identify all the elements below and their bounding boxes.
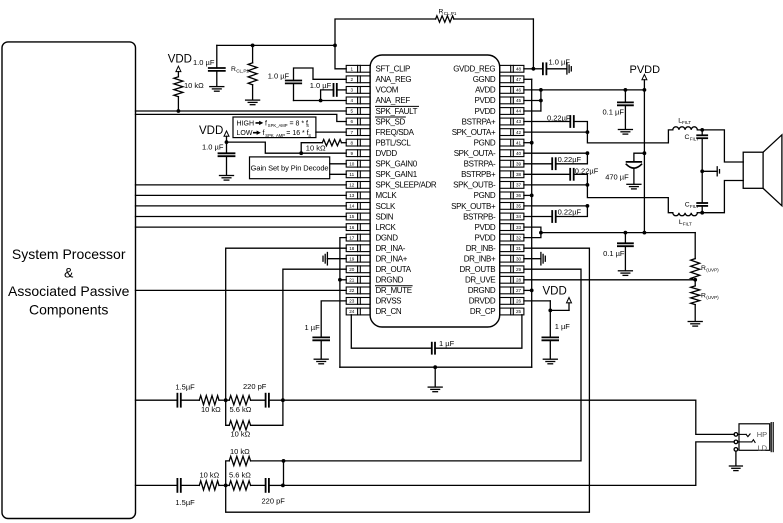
svg-text:6: 6 bbox=[351, 119, 354, 124]
svg-text:470 µF: 470 µF bbox=[605, 172, 629, 181]
pin 42 SPK_OUTA+ terminal bbox=[500, 129, 524, 136]
svg-text:DRVSS: DRVSS bbox=[376, 297, 402, 306]
pin 11 SPK_GAIN1 terminal bbox=[346, 171, 370, 178]
svg-text:4: 4 bbox=[351, 98, 354, 103]
svg-text:12: 12 bbox=[349, 183, 355, 188]
svg-text:45: 45 bbox=[516, 98, 522, 103]
wire top feedback loop bbox=[335, 19, 533, 69]
wire SPK_OUTB+ bbox=[524, 205, 588, 207]
capacitor 1.5uF A bbox=[136, 382, 200, 406]
svg-text:S: S bbox=[308, 133, 311, 138]
pin 10 SPK_GAIN0 terminal bbox=[346, 160, 370, 167]
System Processor block bbox=[2, 42, 136, 519]
ground filter midpoint bbox=[700, 167, 719, 176]
svg-text:0.22µF: 0.22µF bbox=[558, 208, 582, 217]
svg-text:DRVDD: DRVDD bbox=[469, 297, 496, 306]
pin 43 BSTRPA+ terminal bbox=[500, 118, 524, 125]
svg-text:10 kΩ: 10 kΩ bbox=[230, 447, 250, 456]
VDD supply symbol (DRVDD) bbox=[524, 286, 572, 313]
pin 22 DR_MUTE terminal bbox=[346, 287, 370, 294]
note box frequency select bbox=[233, 117, 316, 138]
wire ground bus bottom bbox=[340, 365, 532, 369]
wire GGND/PGND/DRGND bus bbox=[524, 79, 534, 367]
svg-text:FREQ/SDA: FREQ/SDA bbox=[376, 128, 415, 137]
wire DR_INA- to input network bbox=[226, 248, 347, 400]
resistor R_UVP lower bbox=[688, 280, 719, 326]
wire SCLK line bbox=[136, 205, 347, 207]
svg-text:S: S bbox=[306, 123, 309, 128]
pin 23 DRVSS terminal bbox=[346, 298, 370, 305]
resistor 10 kOhm B feedback bbox=[226, 447, 286, 485]
svg-text:36: 36 bbox=[516, 193, 522, 198]
svg-text:MCLK: MCLK bbox=[376, 191, 398, 200]
label pin SPK_SD bbox=[376, 117, 406, 126]
svg-text:0.22µF: 0.22µF bbox=[575, 166, 599, 175]
note box gain set bbox=[250, 157, 330, 179]
svg-text:1 µF: 1 µF bbox=[305, 323, 321, 332]
capacitor 1.0uF DVDD decoupling bbox=[202, 142, 235, 180]
resistor 10 kOhm A feedback bbox=[226, 400, 283, 438]
svg-text:10 kΩ: 10 kΩ bbox=[231, 429, 251, 438]
svg-text:DR_OUTA: DR_OUTA bbox=[376, 265, 412, 274]
wire DR_MUTE line bbox=[136, 289, 347, 291]
pin 45 PVDD terminal bbox=[500, 97, 524, 104]
svg-text:DR_INA+: DR_INA+ bbox=[376, 255, 408, 264]
svg-text:DR_INB-: DR_INB- bbox=[466, 244, 496, 253]
svg-text:= 16 * f: = 16 * f bbox=[286, 130, 308, 137]
svg-text:24: 24 bbox=[349, 309, 355, 314]
PVDD supply symbol bbox=[630, 64, 661, 80]
svg-text:1.0 µF: 1.0 µF bbox=[268, 71, 290, 80]
capacitor 1.0uF ANA_REG bbox=[268, 68, 347, 101]
svg-text:10 kΩ: 10 kΩ bbox=[201, 405, 221, 414]
svg-text:17: 17 bbox=[349, 235, 355, 240]
svg-text:SPK_OUTB+: SPK_OUTB+ bbox=[451, 202, 496, 211]
wire row1 to HP jack bbox=[283, 400, 734, 434]
capacitor 1uF charge pump DR_CN/DR_CP bbox=[351, 315, 522, 354]
svg-text:48: 48 bbox=[516, 67, 522, 72]
pin 19 DR_INA+ terminal bbox=[346, 255, 370, 262]
svg-text:PVDD: PVDD bbox=[474, 223, 495, 232]
inductor L_FILT lower bbox=[673, 213, 698, 227]
pin 26 DRVDD terminal bbox=[500, 298, 524, 305]
svg-text:VDD: VDD bbox=[199, 125, 223, 137]
svg-text:11: 11 bbox=[349, 172, 354, 177]
pin 20 DR_OUTA terminal bbox=[346, 266, 370, 273]
pin 27 DRGND terminal bbox=[500, 287, 524, 294]
resistor 10 kOhm B series bbox=[199, 471, 227, 491]
capacitor 1.5uF B bbox=[136, 479, 200, 507]
pin 46 AVDD terminal bbox=[500, 87, 524, 94]
pin 40 SPK_OUTA- terminal bbox=[500, 150, 524, 157]
svg-text:5: 5 bbox=[351, 109, 354, 114]
svg-text:System Processor: System Processor bbox=[12, 246, 126, 262]
ground main bbox=[428, 367, 442, 392]
pin 29 DR_OUTB terminal bbox=[500, 266, 524, 273]
wire MCLK line bbox=[136, 194, 347, 196]
wire SPK_FAULT line bbox=[136, 110, 347, 112]
svg-text:32: 32 bbox=[516, 235, 522, 240]
capacitor 220pF A bbox=[243, 382, 285, 407]
svg-text:(UVP): (UVP) bbox=[706, 295, 719, 300]
svg-text:SPK_AMP: SPK_AMP bbox=[265, 133, 285, 138]
svg-text:HP: HP bbox=[757, 430, 767, 439]
svg-text:30: 30 bbox=[516, 256, 522, 261]
svg-text:SFT_CLIP: SFT_CLIP bbox=[376, 65, 411, 74]
pin 30 DR_INB+ terminal bbox=[500, 255, 524, 262]
pin 28 DR_UVE terminal bbox=[500, 276, 524, 283]
svg-text:1.0 µF: 1.0 µF bbox=[549, 58, 571, 67]
svg-text:20: 20 bbox=[349, 267, 355, 272]
svg-text:38: 38 bbox=[516, 172, 522, 177]
ground DR_INA+ bbox=[323, 253, 346, 265]
svg-text:39: 39 bbox=[516, 161, 522, 166]
capacitor C_FILT upper bbox=[685, 130, 708, 171]
wire DR_OUTB to input network bbox=[284, 269, 582, 461]
pin 2 ANA_REG terminal bbox=[346, 76, 370, 83]
resistor 10 kOhm PBTL pull-up bbox=[299, 140, 346, 156]
svg-text:PBTL/SCL: PBTL/SCL bbox=[376, 139, 412, 148]
pin 16 LRCK terminal bbox=[346, 224, 370, 231]
svg-text:f: f bbox=[263, 130, 265, 137]
svg-text:FILT: FILT bbox=[690, 137, 699, 142]
svg-text:FILT: FILT bbox=[682, 120, 691, 125]
svg-text:7: 7 bbox=[351, 130, 354, 135]
svg-text:DGND: DGND bbox=[376, 233, 399, 242]
svg-text:19: 19 bbox=[349, 256, 355, 261]
svg-text:10: 10 bbox=[349, 161, 355, 166]
svg-text:13: 13 bbox=[349, 193, 355, 198]
wire ANA_REF bbox=[294, 100, 347, 102]
pin 9 DVDD terminal bbox=[346, 150, 370, 157]
resistor 5.6 kOhm A bbox=[226, 396, 266, 414]
capacitor 1uF DRVSS bbox=[305, 301, 347, 364]
svg-text:42: 42 bbox=[516, 130, 522, 135]
speaker bbox=[743, 135, 782, 206]
svg-text:PVDD: PVDD bbox=[474, 107, 495, 116]
svg-text:PVDD: PVDD bbox=[474, 96, 495, 105]
svg-text:GVDD_REG: GVDD_REG bbox=[453, 65, 495, 74]
wire LRCK line bbox=[136, 226, 347, 228]
capacitor C 1.0uF at SFT_CLIP rail bbox=[193, 45, 225, 91]
svg-text:DR_INA-: DR_INA- bbox=[376, 244, 406, 253]
svg-text:SPK_GAIN0: SPK_GAIN0 bbox=[376, 160, 418, 169]
svg-text:DR_UVE: DR_UVE bbox=[465, 276, 495, 285]
pin 7 FREQ/SDA terminal bbox=[346, 129, 370, 136]
VDD supply symbol (pull-up) bbox=[168, 53, 192, 77]
connector HP/LD headphone jack bbox=[734, 423, 773, 453]
svg-text:CL,P1: CL,P1 bbox=[444, 11, 457, 16]
wire SPK_GAIN0 stub bbox=[330, 163, 347, 165]
pin 13 MCLK terminal bbox=[346, 192, 370, 199]
svg-text:PVDD: PVDD bbox=[474, 233, 495, 242]
pin 33 PVDD terminal bbox=[500, 224, 524, 231]
svg-text:ANA_REF: ANA_REF bbox=[376, 96, 411, 105]
wire DGND to ground bus bbox=[338, 238, 346, 368]
svg-text:1: 1 bbox=[351, 67, 354, 72]
capacitor 470uF bulk bbox=[605, 153, 644, 189]
wire SPK_OUTA- bbox=[524, 152, 588, 154]
pin 24 DR_CN terminal bbox=[346, 308, 370, 315]
pin 37 SPK_OUTB- terminal bbox=[500, 182, 524, 189]
wire SPK_SLEEP/ADR line bbox=[136, 184, 347, 186]
svg-text:1 µF: 1 µF bbox=[439, 339, 455, 348]
wire top rail to caps bbox=[217, 44, 337, 48]
wire FREQ/SDA stub bbox=[316, 131, 346, 133]
svg-text:ANA_REG: ANA_REG bbox=[376, 75, 412, 84]
svg-text:BSTRPB-: BSTRPB- bbox=[463, 212, 496, 221]
svg-text:18: 18 bbox=[349, 246, 355, 251]
pin 8 PBTL/SCL terminal bbox=[346, 139, 370, 146]
svg-text:CL,P2: CL,P2 bbox=[236, 69, 249, 74]
resistor R_CL,P1 bbox=[436, 9, 457, 23]
svg-text:FILT: FILT bbox=[683, 222, 692, 227]
svg-text:LD: LD bbox=[758, 443, 768, 452]
capacitor C_FILT lower bbox=[685, 171, 708, 212]
svg-text:3: 3 bbox=[351, 88, 354, 93]
svg-text:43: 43 bbox=[516, 119, 522, 124]
wire DRGND stub bbox=[340, 279, 346, 281]
svg-text:1.0 µF: 1.0 µF bbox=[193, 58, 215, 67]
pin 34 BSTRPB- terminal bbox=[500, 213, 524, 220]
svg-text:DR_MUTE: DR_MUTE bbox=[376, 286, 412, 295]
wire DR_OUTA to input network bbox=[283, 269, 346, 400]
svg-text:14: 14 bbox=[349, 204, 355, 209]
svg-text:9: 9 bbox=[351, 151, 354, 156]
op-amp U1 TAS56xx amplifier IC body bbox=[370, 55, 500, 327]
pin 38 BSTRPB+ terminal bbox=[500, 171, 524, 178]
pin 31 DR_INB- terminal bbox=[500, 245, 524, 252]
capacitor 0.22uF BSTRPA+ bbox=[524, 114, 589, 135]
label pin DR_MUTE bbox=[376, 286, 413, 295]
svg-text:LRCK: LRCK bbox=[376, 223, 397, 232]
svg-text:34: 34 bbox=[516, 214, 522, 219]
IC pin name labels bbox=[376, 65, 496, 317]
svg-text:FILT: FILT bbox=[690, 204, 699, 209]
svg-text:DVDD: DVDD bbox=[376, 149, 398, 158]
svg-text:29: 29 bbox=[516, 267, 522, 272]
wire SPK_GAIN1 stub bbox=[330, 173, 347, 175]
svg-text:DRGND: DRGND bbox=[468, 286, 496, 295]
pin 14 SCLK terminal bbox=[346, 203, 370, 210]
resistor R_UVP upper bbox=[691, 233, 719, 280]
svg-text:5.6 kΩ: 5.6 kΩ bbox=[230, 405, 252, 414]
svg-text:41: 41 bbox=[516, 140, 522, 145]
wire SPK_SD line bbox=[136, 114, 347, 121]
pin 12 SPK_SLEEP/ADR terminal bbox=[346, 182, 370, 189]
svg-text:DR_OUTB: DR_OUTB bbox=[460, 265, 496, 274]
wire DVDD line bbox=[227, 142, 347, 153]
svg-text:23: 23 bbox=[349, 299, 355, 304]
wire SPK_OUTA+ to filter bbox=[524, 130, 673, 143]
pin 6 SPK_SD terminal bbox=[346, 118, 370, 125]
resistor 5.6 kOhm B bbox=[226, 471, 266, 491]
svg-text:= 8 * f: = 8 * f bbox=[290, 120, 309, 127]
svg-text:25: 25 bbox=[516, 309, 522, 314]
svg-text:(UVP): (UVP) bbox=[706, 268, 719, 273]
capacitor 0.1uF AVDD bbox=[603, 90, 633, 134]
pin 48 GVDD_REG terminal bbox=[500, 65, 524, 72]
svg-text:BSTRPB+: BSTRPB+ bbox=[461, 170, 496, 179]
svg-text:VDD: VDD bbox=[543, 286, 567, 298]
wire AVDD/PVDD tie bbox=[524, 88, 646, 111]
svg-text:21: 21 bbox=[349, 278, 355, 283]
svg-text:0.22µF: 0.22µF bbox=[547, 114, 571, 123]
svg-text:AVDD: AVDD bbox=[475, 86, 496, 95]
pin 1 SFT_CLIP terminal bbox=[346, 65, 370, 72]
resistor 10 kOhm pull-up SPK_FAULT bbox=[174, 77, 204, 113]
capacitor 0.22uF BSTRPA- bbox=[524, 151, 589, 169]
svg-text:2: 2 bbox=[351, 77, 354, 82]
svg-text:0.22µF: 0.22µF bbox=[558, 155, 582, 164]
wire to speaker + bbox=[697, 128, 743, 162]
pin 44 PVDD terminal bbox=[500, 108, 524, 115]
wire SFT_CLIP stub bbox=[335, 45, 346, 68]
svg-text:DR_CP: DR_CP bbox=[470, 307, 495, 316]
svg-text:10 kΩ: 10 kΩ bbox=[200, 471, 220, 480]
wire row2 to LD jack bbox=[283, 442, 734, 486]
ground GVDD cap (sideways) bbox=[566, 64, 568, 75]
svg-text:26: 26 bbox=[516, 299, 522, 304]
IC pin terminals left side bbox=[346, 65, 524, 315]
pin 21 DRGND terminal bbox=[346, 276, 370, 283]
pin 15 SDIN terminal bbox=[346, 213, 370, 220]
pin 32 PVDD terminal bbox=[500, 234, 524, 241]
svg-text:220 pF: 220 pF bbox=[243, 382, 267, 391]
svg-text:DR_CN: DR_CN bbox=[376, 307, 402, 316]
wire SDIN line bbox=[136, 216, 347, 218]
svg-text:1 µF: 1 µF bbox=[555, 322, 571, 331]
svg-text:1.5µF: 1.5µF bbox=[175, 382, 195, 391]
svg-text:33: 33 bbox=[516, 225, 522, 230]
wire SPK_OUTB- to filter bbox=[524, 185, 673, 213]
svg-text:8: 8 bbox=[351, 140, 354, 145]
pin 3 VCOM terminal bbox=[346, 87, 370, 94]
svg-text:28: 28 bbox=[516, 278, 522, 283]
capacitor 1.0uF VCOM bbox=[310, 81, 346, 103]
svg-text:44: 44 bbox=[516, 109, 522, 114]
svg-text:15: 15 bbox=[349, 214, 355, 219]
capacitor 1uF DRVDD bbox=[542, 310, 570, 363]
svg-text:BSTRPA+: BSTRPA+ bbox=[462, 117, 496, 126]
svg-text:0.1 µF: 0.1 µF bbox=[603, 249, 625, 258]
VDD supply symbol (DVDD) bbox=[199, 125, 229, 144]
svg-text:SDIN: SDIN bbox=[376, 212, 394, 221]
svg-text:47: 47 bbox=[516, 77, 522, 82]
capacitor 0.1uF PVDD bbox=[603, 233, 633, 276]
svg-text:HIGH: HIGH bbox=[237, 120, 255, 127]
svg-text:40: 40 bbox=[516, 151, 522, 156]
svg-text:DRGND: DRGND bbox=[376, 276, 404, 285]
svg-text:&: & bbox=[64, 265, 74, 281]
capacitor 0.22uF BSTRPB- bbox=[524, 204, 589, 222]
wire DR_INB- to input network bbox=[226, 248, 590, 512]
svg-text:16: 16 bbox=[349, 225, 355, 230]
pin 25 DR_CP terminal bbox=[500, 308, 524, 315]
svg-text:VDD: VDD bbox=[168, 53, 192, 65]
svg-text:BSTRPA-: BSTRPA- bbox=[464, 160, 496, 169]
svg-text:GGND: GGND bbox=[473, 75, 496, 84]
svg-text:35: 35 bbox=[516, 204, 522, 209]
svg-text:LOW: LOW bbox=[237, 130, 253, 137]
svg-text:220 pF: 220 pF bbox=[262, 497, 286, 506]
svg-text:Gain Set by Pin Decode: Gain Set by Pin Decode bbox=[251, 163, 329, 172]
svg-text:SPK_FAULT: SPK_FAULT bbox=[376, 107, 418, 116]
pin 4 ANA_REF terminal bbox=[346, 97, 370, 104]
svg-text:PGND: PGND bbox=[474, 139, 496, 148]
svg-text:VCOM: VCOM bbox=[376, 86, 399, 95]
svg-text:SPK_OUTA-: SPK_OUTA- bbox=[454, 149, 496, 158]
svg-text:10 kΩ: 10 kΩ bbox=[306, 143, 326, 152]
pin 35 SPK_OUTB+ terminal bbox=[500, 203, 524, 210]
resistor R_CL,P2 bbox=[231, 45, 260, 104]
pin 18 DR_INA- terminal bbox=[346, 245, 370, 252]
svg-text:Components: Components bbox=[29, 302, 108, 318]
wire PVDD pins to rail bbox=[524, 227, 695, 238]
ground jack sleeve bbox=[729, 451, 742, 470]
svg-text:SPK_OUTB-: SPK_OUTB- bbox=[453, 181, 496, 190]
svg-text:DR_INB+: DR_INB+ bbox=[464, 255, 496, 264]
wire DR_UVE sense line bbox=[524, 278, 697, 282]
svg-text:SPK_GAIN1: SPK_GAIN1 bbox=[376, 170, 418, 179]
resistor 10 kOhm A series bbox=[199, 396, 227, 414]
svg-text:SPK_AMP: SPK_AMP bbox=[268, 123, 288, 128]
svg-text:f: f bbox=[265, 120, 267, 127]
capacitor 220pF B bbox=[262, 479, 286, 506]
wire to speaker - bbox=[697, 181, 743, 215]
svg-text:5.6 kΩ: 5.6 kΩ bbox=[229, 471, 251, 480]
svg-text:PGND: PGND bbox=[474, 191, 496, 200]
svg-text:SPK_SD: SPK_SD bbox=[376, 117, 406, 126]
svg-text:0.1 µF: 0.1 µF bbox=[603, 108, 625, 117]
svg-text:1.5µF: 1.5µF bbox=[175, 498, 195, 507]
svg-text:22: 22 bbox=[349, 288, 355, 293]
label pin SPK_FAULT bbox=[376, 106, 419, 115]
svg-text:37: 37 bbox=[516, 183, 522, 188]
svg-text:SPK_OUTA+: SPK_OUTA+ bbox=[452, 128, 496, 137]
pin 36 PGND terminal bbox=[500, 192, 524, 199]
svg-text:SPK_SLEEP/ADR: SPK_SLEEP/ADR bbox=[376, 181, 437, 190]
svg-text:1.0 µF: 1.0 µF bbox=[310, 81, 332, 90]
capacitor 1.0uF GVDD_REG bbox=[524, 63, 567, 74]
inductor L_FILT upper bbox=[673, 117, 698, 130]
svg-text:SCLK: SCLK bbox=[376, 202, 397, 211]
svg-text:1.0 µF: 1.0 µF bbox=[202, 143, 224, 152]
pin 17 DGND terminal bbox=[346, 234, 370, 241]
svg-text:10 kΩ: 10 kΩ bbox=[184, 81, 204, 90]
svg-text:31: 31 bbox=[516, 246, 522, 251]
svg-text:27: 27 bbox=[516, 288, 522, 293]
svg-text:46: 46 bbox=[516, 88, 522, 93]
pin 5 SPK_FAULT terminal bbox=[346, 108, 370, 115]
pin 47 GGND terminal bbox=[500, 76, 524, 83]
pin 41 PGND terminal bbox=[500, 139, 524, 146]
pin 39 BSTRPA- terminal bbox=[500, 160, 524, 167]
svg-text:Associated Passive: Associated Passive bbox=[8, 283, 130, 299]
ground DR_INB+ bbox=[524, 253, 545, 265]
wire PVDD rail bbox=[643, 80, 647, 235]
capacitor 0.22uF BSTRPB+ bbox=[524, 166, 599, 187]
